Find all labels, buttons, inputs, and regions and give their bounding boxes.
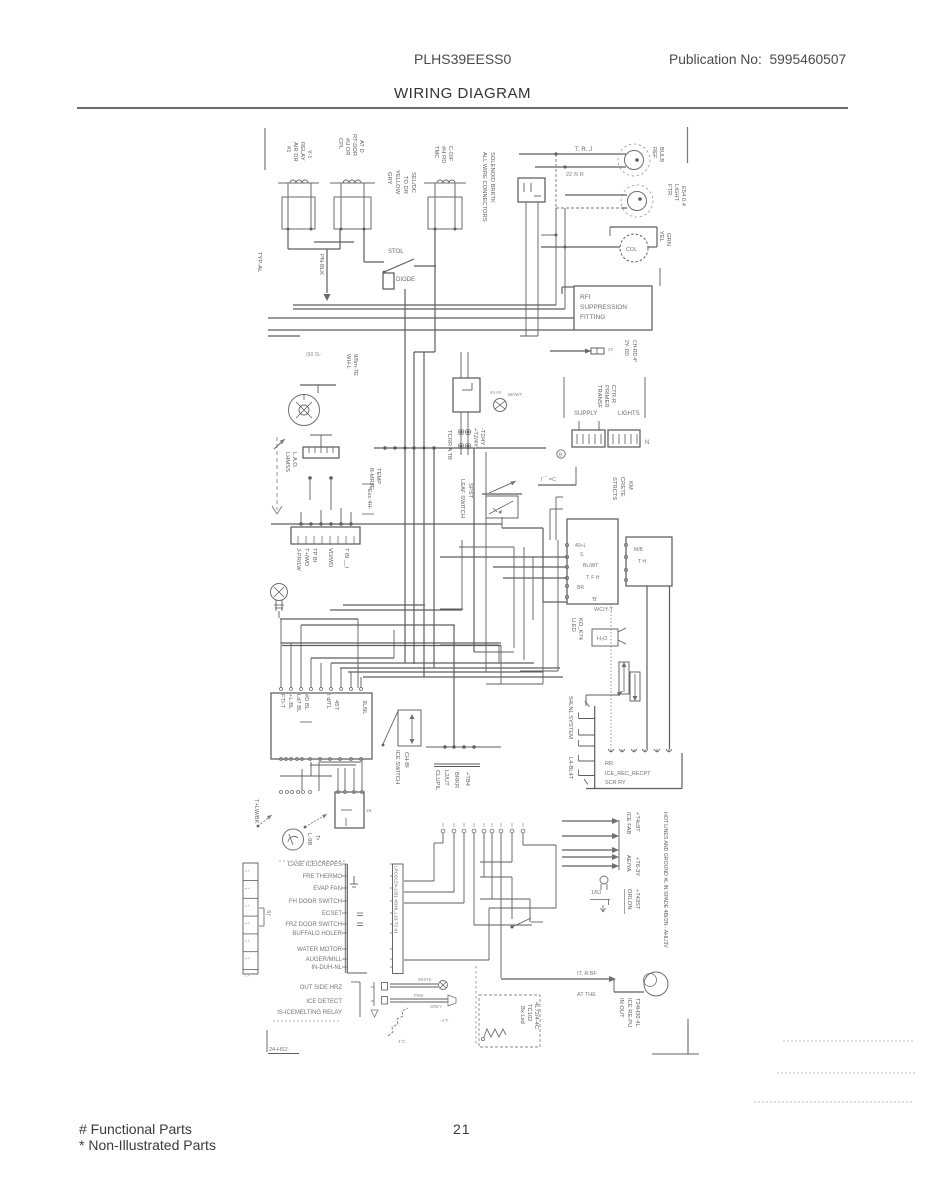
svg-text:TRANSF: TRANSF: [596, 385, 602, 409]
wire bus: [293, 308, 565, 310]
relay stem: [454, 183, 456, 229]
svg-text:-4°F: -4°F: [440, 1018, 449, 1023]
tick marks: [357, 912, 363, 914]
list2 dotted underline: [273, 1020, 341, 1022]
wire bus band: [363, 676, 563, 678]
svg-text:TMC: TMC: [433, 146, 439, 159]
svg-text:CASE ICE/CREPES: CASE ICE/CREPES: [288, 862, 342, 868]
svg-text:AIR DR: AIR DR: [292, 142, 298, 162]
double wire: [434, 763, 480, 765]
bracket2: [373, 982, 375, 1006]
fuse block: [550, 350, 591, 352]
svg-text:STRCTS: STRCTS: [611, 477, 617, 500]
svg-text:L-9B: L-9B: [306, 833, 312, 845]
resistor R1 zigzag: [484, 1029, 506, 1037]
svg-text:-Exc 4H-: -Exc 4H-: [366, 487, 372, 510]
wire bend to control: [501, 517, 503, 528]
svg-text:Sƒ: Sƒ: [265, 910, 271, 916]
svg-text:I´¯ =C: I´¯ =C: [541, 476, 556, 483]
wire bus band: [331, 662, 534, 664]
svg-text:CLUPIL: CLUPIL: [434, 770, 440, 791]
wires from pin column: [404, 880, 434, 882]
svg-text:YELLOW: YELLOW: [394, 170, 400, 195]
svg-text:IT, R BF: IT, R BF: [577, 971, 598, 977]
svg-text:FRE THERMO: FRE THERMO: [302, 874, 342, 880]
svg-text:VD/WD: VD/WD: [327, 548, 333, 567]
lamp L1 refrigerator bulb: [625, 151, 644, 170]
svg-text:-T2/4Y: -T2/4Y: [479, 428, 485, 446]
svg-text:TYP-AL: TYP-AL: [256, 252, 262, 273]
wire bus left: [271, 523, 502, 525]
relay coil line: [330, 182, 375, 184]
svg-text:PRIMER: PRIMER: [603, 385, 609, 408]
svg-text:1B: 1B: [366, 808, 372, 813]
wire strip stem: [320, 435, 322, 447]
svg-text:4L72/4-4C: 4L72/4-4C: [533, 1002, 539, 1029]
svg-text:SPST: SPST: [467, 483, 473, 499]
svg-text:2Y: 2Y: [608, 347, 614, 352]
svg-text:··: ··: [606, 354, 609, 359]
wire arrow 4: [562, 856, 612, 858]
pressure switch S4: [257, 825, 260, 828]
wire bus band: [340, 667, 560, 669]
wire bus: [293, 304, 556, 306]
wire icemaker: [538, 484, 576, 486]
resistor R2 diagonal: [388, 1008, 408, 1036]
svg-text:C-DIF: C-DIF: [447, 146, 453, 162]
svg-text:LHMSS: LHMSS: [284, 452, 290, 472]
arrow up: [274, 439, 285, 449]
svg-text:ECSET: ECSET: [322, 911, 342, 917]
door switch S2: [482, 493, 522, 495]
terminal box light switch: [518, 178, 545, 202]
svg-text:#H RD: #H RD: [440, 146, 446, 163]
relay stem: [363, 183, 365, 229]
door switch contact box: [486, 496, 518, 518]
svg-text:T+LW/BK: T+LW/BK: [253, 799, 259, 824]
relay box: [282, 197, 315, 229]
wire trunk: [413, 352, 415, 664]
dispenser control receptacle: [586, 788, 682, 790]
svg-text:I d/TL: I d/TL: [325, 694, 331, 710]
svg-text:SOLENOID BRKTK: SOLENOID BRKTK: [489, 152, 495, 203]
svg-text:DIODE: DIODE: [396, 277, 415, 283]
svg-text:RT-DOR: RT-DOR: [351, 134, 357, 156]
main PCB box: [271, 693, 372, 759]
svg-text:FTI-T: FTI-T: [279, 694, 285, 709]
control board A: [567, 519, 618, 604]
wire drop: [453, 625, 455, 747]
wire RFI bottom stub: [659, 268, 661, 286]
wire light switch down pair: [525, 202, 527, 336]
svg-text:•-+: •-+: [245, 957, 251, 961]
svg-text:SUPPRESSION: SUPPRESSION: [580, 304, 627, 311]
svg-text:SUPPLY: SUPPLY: [574, 411, 597, 417]
svg-text:IN-DUH-NL: IN-DUH-NL: [311, 965, 342, 971]
svg-text:S4LNL SYSTEM: S4LNL SYSTEM: [567, 696, 573, 739]
diode D1 box: [383, 273, 394, 289]
relay box: [334, 197, 371, 229]
wire bus band: [282, 645, 501, 647]
diagram left edge tick: [264, 128, 266, 170]
svg-text:+T4c9T: +T4c9T: [634, 812, 640, 832]
svg-text:CPL: CPL: [337, 138, 343, 150]
wire mesh: [440, 624, 455, 626]
svg-text:KO_K74: KO_K74: [577, 618, 583, 641]
switch row: [474, 924, 532, 926]
svg-text:ICE RE-PU: ICE RE-PU: [626, 998, 632, 1027]
wire crossing: [314, 241, 354, 243]
diagram right edge tick: [687, 127, 689, 163]
wire bus band: [301, 624, 454, 626]
svg-text:CTR-R: CTR-R: [610, 385, 616, 403]
PCB top pins: [280, 688, 283, 691]
svg-text:4°C: 4°C: [398, 1039, 406, 1044]
svg-text:FRZ DOOR SWITCH: FRZ DOOR SWITCH: [285, 922, 342, 928]
switch S1 STOL: [384, 259, 414, 272]
svg-text:N: N: [645, 440, 649, 446]
switch ladder: [594, 706, 596, 788]
svg-text:WHITE: WHITE: [418, 977, 432, 982]
valve H2O box: [592, 629, 618, 646]
defrost heater dashed box: [479, 995, 540, 1047]
svg-text:TP BI: TP BI: [311, 548, 317, 563]
overload box: [335, 792, 364, 828]
wire bus band: [348, 671, 520, 673]
wire board B down2: [669, 586, 671, 749]
svg-text:•-+: •-+: [245, 904, 251, 908]
wire mesh: [523, 547, 525, 660]
control board B: [626, 537, 672, 586]
condenser motor M3: [644, 972, 668, 996]
low voltage dashed divider: [276, 437, 278, 510]
relay stem: [340, 183, 342, 229]
arrow PN-BLK: [326, 249, 328, 293]
fan motor M2: [289, 395, 320, 426]
svg-text:LPCOLE4-2-B1 4/3HL L13-T2 41: LPCOLE4-2-B1 4/3HL L13-T2 41: [394, 866, 399, 934]
title wiring diagram: [394, 85, 531, 102]
svg-text:CH-BI: CH-BI: [403, 752, 409, 768]
relay stem: [310, 183, 312, 229]
svg-text:45T: 45T: [333, 700, 339, 710]
svg-text:2Y- DD: 2Y- DD: [623, 340, 629, 356]
wire relay B right stem down: [363, 229, 365, 262]
svg-text:AE/YA: AE/YA: [625, 855, 631, 872]
motor M1 circle: [620, 234, 648, 262]
chassis ground symbol: [494, 399, 507, 412]
svg-text:CRETE: CRETE: [619, 477, 625, 497]
svg-text:SCR RY: SCR RY: [605, 780, 626, 786]
bracket boxes: [382, 983, 388, 991]
PCB top wires: [280, 619, 282, 688]
svg-text:L4-BL4T: L4-BL4T: [567, 757, 573, 780]
svg-text:LEAF SWITCH: LEAF SWITCH: [459, 479, 465, 518]
svg-text:9/5m-7E: 9/5m-7E: [352, 354, 358, 376]
wire arrow 5: [562, 865, 612, 867]
PCB bottom pins: [280, 758, 283, 761]
connector strip: [243, 863, 258, 974]
relay stem: [287, 183, 289, 229]
svg-text:TCRR A TB: TCRR A TB: [446, 430, 452, 460]
svg-text:PN-BLK: PN-BLK: [318, 254, 324, 275]
svg-text:L.A.O.: L.A.O.: [291, 452, 297, 469]
wire mesh: [473, 448, 475, 652]
wire to solenoids: [586, 694, 619, 696]
wire lamp down: [278, 611, 280, 618]
wire mesh: [532, 557, 534, 620]
thermistor RT2: [390, 998, 448, 1000]
svg-text:RELAY: RELAY: [299, 142, 305, 161]
wire bus with junctions: [374, 447, 546, 449]
connector bracket: [344, 864, 346, 973]
svg-text:GREY: GREY: [430, 1004, 442, 1009]
relay stem: [434, 183, 436, 229]
wire module top stubs: [460, 352, 462, 378]
wire stub: [541, 234, 556, 236]
wire to motor left: [541, 246, 620, 248]
wire bus: [268, 317, 574, 319]
terminal block TB1: [578, 421, 580, 430]
svg-text:L2/UT: L2/UT: [443, 770, 449, 786]
label ORION: [624, 889, 626, 914]
motor M1 COL bracket: [610, 226, 657, 228]
svg-text:+743ST: +743ST: [634, 889, 640, 910]
svg-text:'B': 'B': [592, 597, 597, 603]
svg-text:SEL/DC: SEL/DC: [410, 172, 416, 193]
wire arrow 1: [562, 820, 612, 822]
wire mesh: [493, 566, 567, 568]
wire bus band: [330, 609, 462, 611]
footer non-illustrated parts: [79, 1137, 216, 1153]
wire above fan: [300, 384, 336, 386]
svg-text:IN OUT: IN OUT: [618, 998, 624, 1018]
wire bus: [268, 329, 574, 331]
wire relay C stem down: [434, 229, 436, 352]
svg-text:ICE SWITCH: ICE SWITCH: [394, 750, 400, 784]
svg-text:GRY: GRY: [386, 172, 392, 185]
svg-text:+T6-3Y: +T6-3Y: [634, 857, 640, 876]
lamp enclosure left edge: [555, 154, 557, 208]
svg-text:Y-1: Y-1: [306, 150, 312, 159]
svg-text:WATER MOTOR: WATER MOTOR: [297, 947, 343, 953]
svg-text:AT D: AT D: [358, 140, 364, 153]
svg-text:HOT LINES AND GROUND #L IN SPA: HOT LINES AND GROUND #L IN SPADE 4BI/2N …: [662, 812, 668, 948]
connector pins top row: [441, 829, 445, 833]
svg-text:#D BL: #D BL: [303, 694, 309, 711]
svg-text:STOL: STOL: [388, 249, 404, 255]
svg-text:#U DR: #U DR: [344, 138, 350, 155]
revision rule 2: [777, 1072, 915, 1074]
svg-text:1δΩ: 1δΩ: [591, 890, 601, 896]
ice level switch: [398, 710, 421, 746]
wire mesh: [557, 540, 559, 671]
svg-text:•-+: •-+: [245, 974, 251, 978]
svg-text:•-+: •-+: [245, 939, 251, 943]
svg-text:BR: BR: [577, 585, 584, 591]
svg-text:YEL: YEL: [658, 231, 664, 243]
solenoid V2: [630, 672, 640, 701]
svg-text:T. R. J: T. R. J: [575, 147, 592, 153]
list separator dotted: [279, 860, 345, 862]
svg-text:Ld7 BL: Ld7 BL: [295, 694, 301, 713]
junction block: [291, 527, 360, 544]
pin row: [280, 791, 283, 794]
svg-text:24-HS2·: 24-HS2·: [269, 1047, 290, 1053]
terminal strip: [303, 447, 339, 458]
svg-text:TO DR: TO DR: [402, 176, 408, 194]
ground symbol: [353, 876, 355, 884]
svg-text:+T2/4Y: +T2/4Y: [472, 428, 478, 447]
svg-text:REF: REF: [651, 147, 657, 159]
title underline rule: [77, 107, 848, 109]
svg-text:J-PR/LW: J-PR/LW: [295, 548, 301, 571]
svg-text:COL: COL: [626, 247, 637, 253]
bracket: [351, 981, 360, 983]
svg-text:CH-RD 4°: CH-RD 4°: [631, 340, 637, 362]
svg-text:BL/WT: BL/WT: [583, 563, 598, 569]
svg-text:M/B: M/B: [634, 547, 644, 553]
lamp L2 freezer bulb: [628, 192, 647, 211]
svg-text:T. F H: T. F H: [586, 575, 600, 581]
svg-text:WH-L: WH-L: [345, 354, 351, 370]
pin column box: [393, 864, 404, 974]
relay coil line: [424, 182, 466, 184]
switch S3: [511, 926, 514, 929]
svg-text:•-+: •-+: [245, 887, 251, 891]
connector bus vertical: [618, 820, 620, 870]
RFI suppression filter box: [574, 286, 652, 330]
svg-text:T BI __I: T BI __I: [343, 548, 349, 569]
wire rows below board: [319, 761, 361, 763]
wire relay A to bus: [287, 229, 289, 249]
svg-text:#1: #1: [285, 146, 291, 152]
wire trunk: [423, 352, 425, 677]
svg-text:RFI: RFI: [580, 294, 591, 301]
wire to condenser: [501, 978, 609, 980]
svg-text:ALL WIRE CONNECTORS: ALL WIRE CONNECTORS: [481, 152, 487, 222]
junction dots row: [426, 746, 501, 748]
footer functional parts: [79, 1121, 192, 1137]
svg-text:EVAP FAN: EVAP FAN: [313, 886, 342, 892]
bracket supply: [563, 377, 565, 418]
svg-text:+TB4: +TB4: [464, 772, 470, 787]
relay coil line: [278, 182, 319, 184]
wire to lamp L1 terminal 1: [519, 153, 622, 155]
wire motor right: [648, 246, 657, 248]
footer page number: [453, 1121, 471, 1137]
svg-text:U.ED: U.ED: [570, 618, 576, 632]
svg-text:+L.BL: +L.BL: [287, 694, 293, 710]
svg-text:FH DOOR SWITCH: FH DOOR SWITCH: [289, 899, 342, 905]
compressor motor M4: [283, 829, 304, 850]
svg-text:(90 /S-: (90 /S-: [306, 352, 321, 358]
wire board B down: [646, 586, 648, 749]
pressure switch S5: [304, 826, 307, 829]
wire bus band: [281, 642, 501, 644]
svg-text:22 /5 R: 22 /5 R: [566, 172, 584, 178]
svg-text:#4 #4: #4 #4: [490, 390, 502, 395]
svg-text:TEMP: TEMP: [375, 468, 381, 484]
wire bus band: [311, 657, 394, 659]
svg-text:BULB: BULB: [658, 147, 664, 162]
wire mesh: [485, 452, 487, 672]
svg-text:T+/WD: T+/WD: [303, 548, 309, 566]
header model number: [414, 51, 511, 67]
wire to lamp L2 terminal 2 enclosure bottom: [556, 207, 622, 209]
header publication number: [669, 52, 846, 67]
svg-text:ICE_REC_RECPT: ICE_REC_RECPT: [605, 771, 651, 777]
svg-text:PINK: PINK: [414, 993, 424, 998]
wire stub: [268, 335, 300, 337]
thermistor bulb: [600, 876, 608, 884]
svg-text:ICE FAB: ICE FAB: [625, 812, 631, 834]
wires below module: [460, 412, 462, 455]
wire lamp verticals down: [555, 208, 557, 305]
wire trunk: [404, 289, 406, 663]
svg-text:Bx Lsd: Bx Lsd: [519, 1006, 525, 1024]
wire bus band: [343, 604, 425, 606]
lamp L3 cabinet: [271, 584, 288, 601]
revision rule 1: [783, 1040, 914, 1042]
relay module box: [453, 378, 480, 412]
svg-text:ICE DETECT: ICE DETECT: [306, 999, 342, 1005]
svg-text:AUGER/MILL: AUGER/MILL: [306, 957, 343, 963]
svg-text:FITTING: FITTING: [580, 314, 605, 321]
wire trunk: [433, 448, 435, 668]
svg-text:LIGHT: LIGHT: [673, 184, 679, 202]
wire arrow 2: [562, 835, 612, 837]
svg-text:BUFFALO HOLER: BUFFALO HOLER: [292, 931, 342, 937]
dashed bracket right: [475, 966, 477, 1046]
svg-text:OUT SIDE HRZ: OUT SIDE HRZ: [300, 985, 343, 991]
svg-text:AT THE: AT THE: [577, 992, 596, 998]
svg-text:T24H30 4L: T24H30 4L: [634, 998, 640, 1027]
svg-text:TC102: TC102: [526, 1004, 532, 1021]
svg-text:•-+: •-+: [245, 922, 251, 926]
svg-text:LIGHTS: LIGHTS: [618, 411, 640, 417]
wire to lamp L1 terminal 2: [535, 166, 622, 168]
svg-text:IS-ICEMELTING RELAY: IS-ICEMELTING RELAY: [277, 1010, 342, 1016]
corner bracket: [687, 1019, 689, 1054]
svg-text:FTR: FTR: [666, 184, 672, 195]
revision rule 3: [754, 1101, 913, 1103]
wire mesh: [513, 547, 515, 648]
relay box: [428, 197, 462, 229]
thermistor RT1: [390, 983, 438, 985]
svg-text:RR: RR: [605, 761, 613, 767]
svg-text:ORLON: ORLON: [626, 889, 632, 910]
solenoid V1: [619, 662, 629, 694]
svg-text:BK/WT: BK/WT: [508, 392, 523, 397]
strip bracket: [259, 907, 264, 909]
svg-text:H₂O: H₂O: [597, 636, 608, 642]
wire arrow 3: [562, 849, 612, 851]
wire mesh bottom: [473, 833, 475, 925]
svg-text:T H: T H: [638, 559, 646, 565]
water valve dashed: [610, 604, 612, 748]
terminal block TB2: [608, 430, 640, 447]
svg-text:Tr: Tr: [314, 835, 320, 840]
svg-text:E54 0.4: E54 0.4: [680, 186, 686, 207]
svg-text:S: S: [580, 552, 584, 558]
wire mesh corners: [550, 508, 563, 510]
svg-text:•-+: •-+: [245, 869, 251, 873]
contact dots: [308, 476, 312, 480]
svg-text:40+L: 40+L: [575, 543, 586, 549]
wire bus band: [280, 618, 358, 620]
wire to lamp L2 terminal 1: [565, 194, 622, 196]
wire into RFI top: [562, 286, 574, 288]
